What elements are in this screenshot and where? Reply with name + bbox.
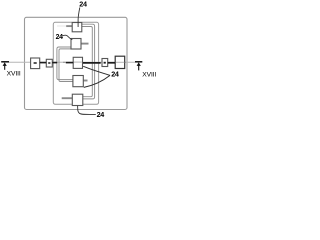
faint stub left of valve box1 [57,25,67,27]
stub right of valve box2 [81,43,89,45]
valve A (middle row left) [31,58,40,69]
gray section line through valve C interior [74,61,82,63]
svg-text:24: 24 [111,69,119,78]
dark channel segment B-wall [52,62,57,64]
stub left of valve G [62,97,73,99]
channel from valve box1 right, down right side, to valve G (outer wall) [82,24,95,99]
valve D [73,76,83,87]
dark dash inside valve E [104,62,106,64]
svg-text:24: 24 [56,34,64,41]
svg-text:XVIII: XVIII [7,71,21,78]
dark channel segment A-B [40,62,47,64]
valve box1 (top, labeled 24) [72,23,82,32]
valve E (middle row right small) [102,59,108,67]
svg-text:24: 24 [97,110,105,119]
stub right of valve D [83,80,87,82]
left section arrow [3,62,7,66]
wing leader lower stroke (24 to valve G area) [84,75,110,87]
right section arrow [137,62,141,66]
valve C (middle row center) [73,57,82,68]
left section-line end bar [1,61,9,63]
dark channel segment E-F [108,62,116,64]
channel from valve box2 left, down left side, to valve D (outer wall) [57,47,73,80]
outer device rectangle [25,17,128,109]
leader from bottom 24 to valve G [78,106,96,115]
svg-text:24: 24 [79,0,87,8]
section line XVIII-XVIII (gray) [9,61,135,63]
right section-line end bar [135,61,142,63]
dark channel segment wall-C [66,62,74,64]
svg-text:XVIII: XVIII [142,72,156,79]
valve box2 (labeled 24) [71,39,81,50]
channel from valve box1 right, down right side, to valve G (inner wall) [82,27,93,97]
channel from valve box2 left, down left side, to valve D (inner wall) [59,49,73,82]
valve G (bottom, labeled 24) [72,94,83,105]
inner device rectangle [53,22,98,104]
leader from top 24 to valve box1 [78,8,80,28]
valve B (middle row small) [46,59,52,67]
wing leader upper stroke (24 to valve C) [83,66,110,75]
dark dash inside valve B [48,62,50,64]
thick stub left of valve box1 [66,25,72,27]
leader from left 24 to valve box2 [62,35,72,40]
gray section line through valve F interior [116,61,125,63]
dark dash inside valve A [34,62,37,64]
dark channel segment C-E [83,62,101,64]
gray dash right of channel left wall [63,61,65,63]
valve F (middle row right large) [115,56,125,68]
